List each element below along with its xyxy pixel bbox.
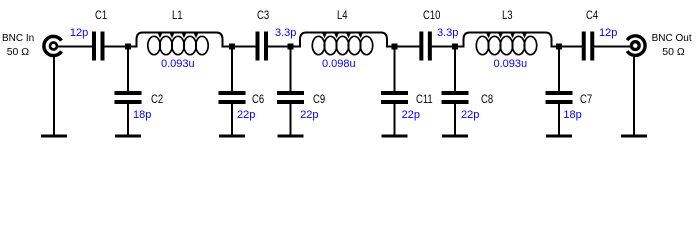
ground — [546, 135, 572, 138]
value C3 value — [275, 28, 296, 39]
wire — [290, 47, 292, 91]
wire — [223, 46, 256, 48]
inductor L1 0.093u — [137, 32, 223, 54]
wire — [633, 57, 635, 136]
wire — [127, 47, 129, 91]
capacitor C11 22p — [381, 91, 408, 104]
value C2 value — [133, 110, 151, 121]
label BNC In — [2, 34, 34, 44]
label L1 — [172, 9, 183, 21]
label C6 — [252, 93, 264, 105]
ground — [278, 135, 304, 138]
label C1 — [95, 9, 107, 21]
inductor L3 0.093u — [464, 32, 552, 54]
node after L3 — [556, 44, 562, 50]
node after C10 — [452, 44, 458, 50]
value C7 value — [563, 110, 581, 121]
wire — [53, 57, 55, 136]
connector J2 BNC Out — [627, 36, 645, 56]
label C3 — [257, 9, 269, 21]
label 50 Ohm right — [662, 47, 684, 58]
wire — [127, 104, 129, 135]
label BNC Out — [652, 34, 692, 44]
value C6 value — [237, 110, 255, 121]
label C10 — [423, 9, 440, 21]
node after L4 — [392, 44, 398, 50]
value C1 value — [70, 28, 88, 39]
wire — [454, 47, 456, 91]
wire — [268, 46, 301, 48]
wire — [394, 104, 396, 135]
label C7 — [580, 93, 592, 105]
ground — [442, 135, 468, 138]
label C11 — [416, 93, 433, 105]
wire — [558, 104, 560, 135]
wire — [558, 47, 560, 91]
value C11 value — [402, 110, 420, 121]
value C8 value — [461, 110, 479, 121]
wire — [290, 104, 292, 135]
wire — [231, 47, 233, 91]
value L1 value — [161, 59, 195, 70]
node after L1 — [229, 44, 235, 50]
capacitor C4 12p — [582, 32, 595, 61]
capacitor C9 22p — [277, 91, 304, 104]
value L3 value — [494, 59, 528, 70]
value L4 value — [322, 59, 356, 70]
wire — [104, 46, 137, 48]
value C4 value — [599, 28, 617, 39]
wire — [387, 46, 420, 48]
connector J1 BNC In — [44, 36, 62, 55]
wire — [394, 47, 396, 91]
capacitor C2 18p — [115, 91, 142, 104]
label L4 — [337, 9, 348, 21]
ground — [621, 135, 647, 138]
label L3 — [502, 9, 513, 21]
node after C1 — [125, 44, 131, 50]
wire — [552, 46, 583, 48]
ground — [219, 135, 245, 138]
wire — [432, 46, 464, 48]
value C9 value — [300, 110, 318, 121]
value C10 value — [437, 28, 458, 39]
capacitor C10 3.3p — [419, 32, 432, 61]
capacitor C1 12p — [92, 32, 105, 61]
capacitor C6 22p — [219, 91, 246, 104]
wire — [58, 46, 93, 48]
capacitor C3 3.3p — [256, 32, 269, 61]
label C4 — [586, 9, 598, 21]
label C8 — [481, 93, 493, 105]
node after C3 — [288, 44, 294, 50]
inductor L4 0.098u — [300, 32, 387, 54]
wire — [454, 104, 456, 135]
capacitor C8 22p — [442, 91, 469, 104]
wire — [594, 46, 630, 48]
ground — [382, 135, 408, 138]
label C2 — [151, 93, 163, 105]
label C9 — [313, 93, 325, 105]
ground — [41, 135, 67, 138]
capacitor C7 18p — [546, 91, 573, 104]
ground — [115, 135, 141, 138]
label 50 Ohm left — [7, 47, 29, 58]
wire — [231, 104, 233, 135]
